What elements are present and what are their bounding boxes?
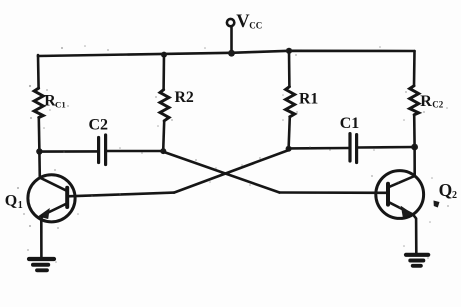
wire top rail	[38, 51, 415, 56]
wire right branch top	[413, 51, 416, 86]
node collector Q1	[36, 148, 42, 154]
svg-text:V: V	[236, 12, 250, 32]
svg-text:R1: R1	[299, 91, 318, 108]
svg-text:C2: C2	[432, 100, 443, 110]
svg-text:2: 2	[452, 190, 457, 201]
resistor RC1	[34, 88, 43, 117]
svg-text:R2: R2	[175, 89, 194, 106]
capacitor C1	[348, 134, 351, 161]
node A	[160, 148, 166, 154]
node B	[286, 146, 292, 152]
wire R2 bottom	[163, 121, 164, 151]
wire Q1 base horizontal	[68, 193, 175, 197]
node R1 tap	[286, 48, 292, 54]
wire diagonal B to Q1 base	[174, 151, 288, 193]
wire B to C1	[289, 147, 349, 150]
svg-text:1: 1	[18, 200, 23, 211]
transistor Q1 emitter arrow	[38, 208, 50, 219]
capacitor C2	[97, 138, 100, 163]
svg-text:Q: Q	[439, 180, 453, 200]
wire Q2 base horizontal	[280, 191, 387, 194]
transistor Q2 circle	[376, 171, 424, 219]
node collector Q2	[411, 144, 418, 151]
transistor Q1 base bar	[65, 188, 69, 207]
wire Q1 emitter down	[40, 216, 43, 258]
svg-text:C2: C2	[89, 117, 109, 134]
transistor Q1 circle	[28, 175, 75, 222]
terminal Vcc circle	[227, 19, 234, 26]
wire R1 bottom	[289, 117, 290, 149]
svg-text:C1: C1	[340, 115, 360, 132]
resistor R2	[160, 90, 169, 121]
wire C1 to node RC2	[358, 146, 415, 149]
node Vcc junction	[228, 50, 235, 57]
svg-text:Q: Q	[5, 192, 17, 209]
blob Q2 emitter mark	[434, 201, 440, 208]
ground left	[29, 257, 54, 261]
transistor Q2 base bar	[386, 184, 390, 205]
wire diagonal A to Q2 base	[164, 152, 280, 193]
wire R2 top	[162, 54, 165, 90]
transistor Q2 collector diagonal	[389, 176, 415, 187]
ground right	[406, 253, 428, 257]
wire C2 to node A	[107, 150, 163, 153]
svg-text:CC: CC	[249, 20, 262, 30]
wire RC2 bottom	[413, 115, 416, 147]
resistor RC2	[410, 86, 419, 115]
wire node to Q1 collector	[38, 152, 41, 178]
transistor Q1 collector diagonal	[40, 178, 67, 191]
transistor Q2 emitter diagonal	[388, 202, 413, 215]
wire node to C2	[39, 150, 97, 153]
wire RC1 to node	[37, 118, 40, 152]
wire Vcc drop	[230, 27, 233, 54]
resistor R1	[286, 87, 295, 117]
svg-text:R: R	[420, 93, 432, 110]
wire Q2 emitter down	[413, 215, 416, 254]
wire R1 top	[288, 51, 291, 87]
transistor Q1 emitter diagonal	[42, 203, 67, 215]
svg-text:C1: C1	[55, 99, 66, 109]
wire left branch top	[37, 55, 40, 88]
node R2 tap	[161, 52, 167, 58]
wire node to Q2 collector	[413, 147, 416, 176]
transistor Q2 emitter arrow	[401, 206, 414, 218]
